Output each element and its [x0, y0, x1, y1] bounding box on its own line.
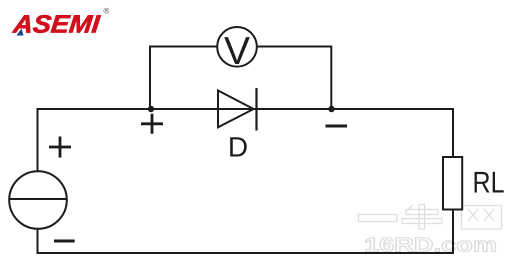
wire voltmeter loop right — [257, 47, 332, 110]
node cathode junction — [328, 106, 334, 112]
logo blue triangle — [17, 29, 24, 36]
svg-text:V: V — [224, 30, 250, 73]
plus sign at source — [49, 137, 71, 158]
wire bottom return — [38, 210, 454, 254]
svg-text:D: D — [228, 132, 248, 163]
watermark 一 — [359, 215, 398, 222]
svg-text:RL: RL — [473, 166, 505, 199]
source BT1 internal line — [9, 198, 67, 200]
diode D triangle — [218, 91, 254, 128]
source BT1 circle — [9, 171, 67, 229]
minus sign at source — [54, 240, 75, 243]
resistor RL body — [443, 157, 462, 210]
svg-text:®: ® — [104, 7, 110, 16]
diode D cathode bar — [255, 88, 257, 131]
node anode junction — [148, 106, 154, 112]
minus sign at cathode node — [326, 125, 348, 128]
svg-text:ASEMI: ASEMI — [11, 11, 102, 39]
watermark 网 — [462, 206, 502, 230]
plus sign at anode node — [141, 114, 163, 134]
voltmeter V1 circle — [217, 27, 257, 67]
wire voltmeter loop left — [150, 47, 217, 110]
watermark 牛 — [402, 205, 442, 230]
wire main top horizontal + left/right drops — [38, 109, 454, 171]
